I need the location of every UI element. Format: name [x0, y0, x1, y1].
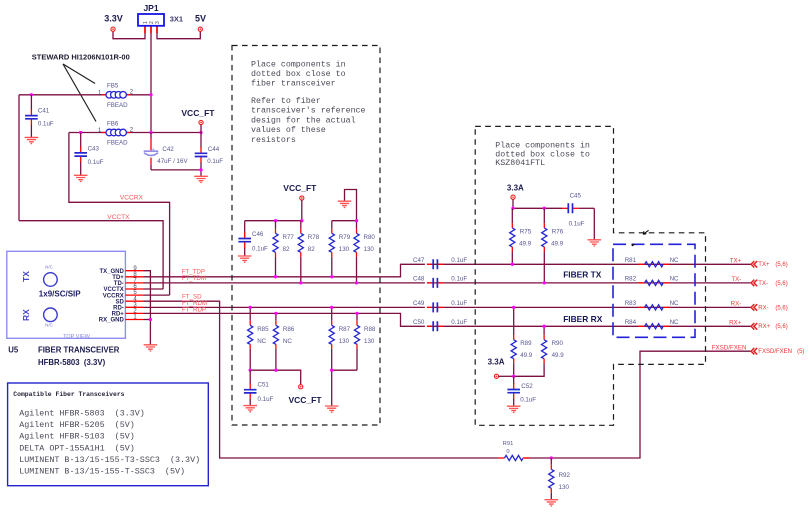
svg-text:FBEAD: FBEAD [107, 102, 128, 109]
svg-text:RD+: RD+ [112, 312, 125, 318]
svg-text:TX_GND: TX_GND [99, 269, 124, 275]
svg-text:R82: R82 [625, 276, 637, 283]
svg-text:FBEAD: FBEAD [107, 140, 128, 147]
svg-text:R86: R86 [283, 326, 295, 333]
svg-text:NC: NC [283, 338, 292, 345]
svg-text:82: 82 [308, 246, 315, 253]
svg-text:0.1uF: 0.1uF [252, 246, 268, 253]
svg-text:design for the actual: design for the actual [251, 115, 356, 125]
svg-text:DELTA OPT-155A1H1 (5V): DELTA OPT-155A1H1 (5V) [19, 443, 135, 453]
svg-text:FB5: FB5 [107, 83, 119, 90]
svg-text:C45: C45 [570, 193, 582, 200]
svg-text:TX-: TX- [758, 281, 768, 287]
svg-text:R85: R85 [257, 326, 269, 333]
svg-text:R80: R80 [364, 234, 376, 241]
svg-text:49.9: 49.9 [519, 240, 532, 247]
svg-text:130: 130 [339, 338, 350, 345]
svg-text:RX-: RX- [758, 305, 768, 311]
svg-text:dotted box close to: dotted box close to [495, 149, 590, 159]
svg-text:C41: C41 [38, 108, 50, 115]
svg-text:C49: C49 [413, 300, 425, 307]
svg-text:TD+: TD+ [112, 275, 124, 281]
svg-text:R78: R78 [308, 234, 320, 241]
svg-text:TOP VIEW: TOP VIEW [63, 334, 91, 340]
svg-text:NC: NC [670, 300, 679, 307]
svg-text:FT_RDP: FT_RDP [182, 307, 206, 314]
svg-text:R91: R91 [503, 441, 514, 447]
svg-text:Refer to fiber: Refer to fiber [251, 96, 321, 106]
svg-text:FT_TDM: FT_TDM [182, 275, 206, 282]
svg-text:Agilent HFBR-5205 (5V): Agilent HFBR-5205 (5V) [19, 420, 135, 430]
svg-text:C51: C51 [258, 382, 270, 389]
svg-text:VCCRX: VCCRX [120, 194, 144, 201]
svg-text:(5,6): (5,6) [775, 324, 787, 330]
svg-text:TX+: TX+ [758, 262, 770, 268]
svg-text:SD: SD [115, 299, 124, 305]
svg-text:FIBER TRANSCEIVER: FIBER TRANSCEIVER [38, 346, 120, 355]
svg-text:TX-: TX- [731, 276, 741, 283]
svg-text:49.9: 49.9 [551, 240, 564, 247]
svg-text:130: 130 [559, 484, 570, 491]
svg-text:C52: C52 [521, 383, 533, 390]
svg-text:3.3A: 3.3A [488, 358, 505, 367]
svg-text:Agilent HFBR-5803 (3.3V): Agilent HFBR-5803 (3.3V) [19, 409, 145, 419]
svg-text:49.9: 49.9 [552, 352, 565, 359]
svg-text:RD-: RD- [113, 306, 124, 312]
svg-text:R76: R76 [552, 228, 564, 235]
svg-text:0.1uF: 0.1uF [451, 300, 467, 307]
svg-text:N/C: N/C [45, 323, 54, 328]
svg-text:VCC_FT: VCC_FT [289, 395, 323, 405]
svg-text:NC: NC [670, 276, 679, 283]
svg-text:C50: C50 [413, 319, 425, 326]
svg-text:0.1uF: 0.1uF [520, 397, 536, 404]
svg-text:fiber transceiver: fiber transceiver [251, 79, 336, 89]
svg-text:TX: TX [21, 271, 31, 282]
svg-text:R87: R87 [339, 326, 351, 333]
svg-text:0.1uF: 0.1uF [207, 158, 223, 165]
svg-text:R79: R79 [339, 234, 351, 241]
svg-text:(5,6): (5,6) [775, 262, 787, 268]
svg-text:C44: C44 [208, 146, 220, 153]
svg-text:82: 82 [283, 246, 290, 253]
svg-text:NC: NC [670, 319, 679, 326]
svg-text:0.1uF: 0.1uF [451, 319, 467, 326]
svg-text:C43: C43 [88, 145, 100, 152]
svg-text:RX+: RX+ [758, 324, 770, 330]
svg-text:0.1uF: 0.1uF [451, 257, 467, 264]
svg-text:130: 130 [364, 246, 375, 253]
svg-text:KSZ8041FTL: KSZ8041FTL [495, 159, 545, 168]
svg-text:0.1uF: 0.1uF [38, 121, 54, 128]
svg-text:FXSD/FXEN: FXSD/FXEN [712, 345, 747, 352]
svg-text:resistors: resistors [251, 135, 296, 145]
svg-text:(5,6): (5,6) [775, 281, 787, 287]
svg-text:R92: R92 [559, 472, 571, 479]
svg-text:RX-: RX- [731, 301, 742, 308]
svg-text:R81: R81 [625, 257, 637, 264]
svg-text:NC: NC [670, 257, 679, 264]
svg-text:R77: R77 [283, 234, 295, 241]
svg-text:49.9: 49.9 [520, 352, 533, 359]
svg-text:C48: C48 [413, 276, 425, 283]
svg-text:0.1uF: 0.1uF [88, 159, 104, 166]
svg-text:dotted box close to: dotted box close to [251, 69, 346, 79]
svg-text:130: 130 [364, 338, 375, 345]
svg-text:Compatible Fiber Transceivers: Compatible Fiber Transceivers [13, 391, 124, 398]
svg-text:N/C: N/C [45, 264, 54, 269]
svg-text:1x9/SC/SIP: 1x9/SC/SIP [39, 290, 81, 299]
svg-text:C47: C47 [413, 257, 425, 264]
svg-text:FB6: FB6 [107, 120, 119, 127]
svg-text:C42: C42 [162, 146, 174, 153]
svg-text:Place components in: Place components in [495, 140, 590, 150]
svg-text:FIBER RX: FIBER RX [563, 314, 603, 324]
svg-text:Place components in: Place components in [251, 59, 346, 69]
svg-text:TD-: TD- [114, 281, 124, 287]
svg-text:0.1uF: 0.1uF [451, 276, 467, 283]
svg-text:transceiver's reference: transceiver's reference [251, 106, 366, 116]
svg-text:STEWARD HI1206N101R-00: STEWARD HI1206N101R-00 [32, 53, 130, 62]
svg-text:47uF / 16V: 47uF / 16V [157, 158, 188, 165]
svg-text:VCC_FT: VCC_FT [181, 108, 215, 118]
svg-text:RX+: RX+ [729, 320, 742, 327]
svg-text:R75: R75 [520, 228, 532, 235]
svg-text:3.3A: 3.3A [507, 184, 524, 193]
svg-text:130: 130 [339, 246, 350, 253]
svg-text:R89: R89 [520, 340, 532, 347]
svg-text:0: 0 [506, 449, 509, 455]
svg-text:0.1uF: 0.1uF [569, 221, 585, 228]
svg-text:C46: C46 [252, 231, 264, 238]
svg-text:TX+: TX+ [730, 258, 742, 265]
svg-text:VCCRX: VCCRX [103, 293, 124, 299]
svg-text:0.1uF: 0.1uF [258, 396, 274, 403]
svg-text:LUMINENT B-13/15-155-T-SSC3 (: LUMINENT B-13/15-155-T-SSC3 (5V) [19, 467, 185, 477]
svg-text:U5: U5 [8, 346, 19, 355]
svg-text:LUMINENT B-13/15-155-T3-SSC3: LUMINENT B-13/15-155-T3-SSC3 (3.3V) [19, 455, 200, 465]
svg-text:JP1: JP1 [143, 3, 158, 13]
svg-text:3.3V: 3.3V [104, 14, 123, 24]
svg-text:(5): (5) [797, 349, 804, 355]
svg-text:5V: 5V [195, 14, 206, 24]
svg-text:R88: R88 [364, 326, 376, 333]
svg-text:R84: R84 [625, 319, 637, 326]
svg-text:VCCTX: VCCTX [107, 214, 130, 221]
svg-text:R90: R90 [552, 340, 564, 347]
svg-text:RX_GND: RX_GND [99, 318, 125, 324]
svg-text:VCCTX: VCCTX [103, 287, 123, 293]
svg-text:FXSD/FXEN: FXSD/FXEN [758, 349, 792, 355]
svg-text:VCC_FT: VCC_FT [283, 183, 317, 193]
svg-text:NC: NC [257, 338, 266, 345]
svg-text:RX: RX [21, 309, 31, 321]
svg-text:3: 3 [155, 21, 161, 24]
svg-text:Agilent HFBR-5103 (5V): Agilent HFBR-5103 (5V) [19, 432, 135, 442]
svg-text:R83: R83 [625, 300, 637, 307]
svg-text:values of these: values of these [251, 125, 326, 135]
svg-text:(5,6): (5,6) [775, 305, 787, 311]
svg-text:3X1: 3X1 [170, 14, 183, 23]
svg-text:FIBER TX: FIBER TX [563, 270, 602, 280]
svg-text:+: + [152, 147, 155, 153]
svg-text:HFBR-5803 (3.3V): HFBR-5803 (3.3V) [38, 358, 106, 367]
